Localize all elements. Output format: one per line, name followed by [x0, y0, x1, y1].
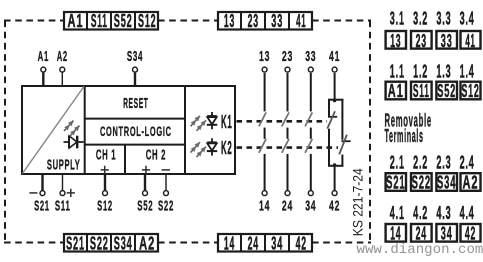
supply section divider [84, 86, 86, 174]
removable terminal block (S21 S22 S34 A2) [386, 173, 481, 194]
caption: Removable Terminals [385, 110, 432, 146]
contact 23-24 (NO, K1+K2 in series) [282, 48, 293, 214]
contact 13-14 (NO, K1+K2 in series) [259, 48, 270, 214]
svg-text:S34: S34 [437, 174, 456, 194]
svg-text:1.3: 1.3 [436, 62, 451, 82]
CH1 plus sign [101, 166, 109, 174]
svg-text:A1: A1 [67, 11, 83, 32]
svg-text:www.diangon.com: www.diangon.com [357, 242, 483, 258]
terminal S12 [97, 174, 113, 214]
NC contact K2 branch [341, 100, 343, 140]
svg-text:14: 14 [224, 234, 235, 254]
pin number labels 3.1-3.4 [390, 9, 475, 29]
terminal S11 [55, 174, 71, 214]
svg-text:3.1: 3.1 [390, 9, 405, 29]
svg-text:S12: S12 [461, 82, 479, 102]
top junction node [333, 99, 336, 102]
svg-text:RESET: RESET [123, 96, 148, 111]
svg-text:2.1: 2.1 [390, 153, 405, 173]
svg-text:24: 24 [248, 234, 259, 254]
channel boxes CH1 / CH2 [85, 145, 185, 174]
svg-text:2.2: 2.2 [413, 153, 428, 173]
svg-text:1.4: 1.4 [460, 62, 475, 82]
svg-text:A1: A1 [38, 47, 49, 65]
svg-text:3.4: 3.4 [460, 9, 475, 29]
removable terminal block (A1 S11 S52 S12) [386, 81, 481, 102]
svg-text:34: 34 [271, 234, 283, 254]
relay coil indicator K1 [191, 111, 233, 132]
svg-text:A2: A2 [462, 173, 478, 194]
svg-text:23: 23 [282, 48, 293, 65]
NC contact K1 branch [328, 100, 330, 116]
contact 41-42 (NC feedback, K1+K2) [327, 48, 350, 214]
terminal S22 [158, 174, 174, 214]
svg-text:S22: S22 [158, 197, 174, 215]
svg-text:4.1: 4.1 [390, 204, 405, 224]
terminal S52 [137, 174, 153, 214]
svg-text:4.3: 4.3 [436, 204, 451, 224]
terminal block TB-bottom-right (14 24 34 42) [218, 234, 312, 254]
svg-text:4.2: 4.2 [413, 204, 428, 224]
terminal block TB-top-right (13 23 33 41) [218, 10, 312, 32]
svg-text:41: 41 [296, 10, 306, 31]
terminal A2 [57, 48, 68, 86]
svg-text:33: 33 [441, 32, 453, 52]
svg-text:S22: S22 [90, 234, 109, 254]
svg-text:13: 13 [224, 12, 235, 32]
svg-text:Terminals: Terminals [385, 125, 424, 146]
CH2 plus sign [142, 166, 150, 174]
svg-text:CH 2: CH 2 [146, 147, 166, 163]
svg-text:S21: S21 [386, 174, 405, 194]
svg-text:41: 41 [465, 30, 475, 51]
svg-text:S52: S52 [114, 12, 133, 32]
supply LED emission arrows [64, 121, 80, 137]
terminal S21 [34, 174, 50, 214]
terminal block TB-bottom-left (S21 S22 S34 A2) [64, 234, 158, 255]
svg-text:3.3: 3.3 [436, 9, 451, 29]
svg-text:23: 23 [416, 31, 427, 51]
terminal S34 [127, 47, 143, 86]
svg-text:13: 13 [390, 31, 401, 51]
svg-text:2.3: 2.3 [436, 153, 451, 173]
terminal A1 [38, 47, 49, 86]
svg-text:2.4: 2.4 [460, 153, 475, 173]
removable terminal block (14 24 34 42) [386, 224, 481, 245]
wire NC box to 42 [334, 166, 336, 191]
svg-text:S21: S21 [66, 234, 85, 254]
svg-text:34: 34 [305, 197, 316, 214]
svg-text:KS 221-7-24: KS 221-7-24 [350, 168, 366, 236]
svg-text:K1: K1 [221, 111, 233, 132]
bottom junction node [333, 163, 336, 166]
svg-text:33: 33 [271, 12, 283, 32]
svg-text:CH 1: CH 1 [96, 147, 116, 163]
svg-text:42: 42 [296, 234, 307, 254]
supply diagonal line [22, 86, 84, 173]
svg-text:13: 13 [259, 48, 270, 65]
terminal block TB-top-left (A1 S11 S52 S12) [64, 11, 158, 32]
svg-text:S21: S21 [34, 198, 50, 214]
svg-text:1.2: 1.2 [413, 62, 428, 82]
svg-text:14: 14 [259, 197, 270, 214]
svg-text:CONTROL-LOGIC: CONTROL-LOGIC [100, 125, 172, 140]
svg-text:K2: K2 [221, 137, 233, 158]
plus polarity at S11 [67, 189, 75, 197]
pin number labels 1.1-1.4 [390, 62, 475, 82]
svg-text:SUPPLY: SUPPLY [47, 157, 81, 173]
svg-text:1.1: 1.1 [390, 62, 405, 82]
svg-text:4.4: 4.4 [460, 204, 475, 224]
pin number labels 2.1-2.4 [390, 153, 475, 173]
svg-text:S11: S11 [91, 12, 108, 33]
wire 41 to NC box [334, 73, 336, 100]
dashed enclosure border [4, 21, 371, 244]
svg-text:23: 23 [248, 12, 259, 32]
minus polarity at S21 [29, 192, 37, 194]
NC box bottom edge [328, 165, 344, 167]
contact 33-34 (NO, K1+K2 in series) [305, 48, 316, 214]
svg-text:3.2: 3.2 [413, 9, 428, 29]
removable terminal block (13 23 33 41) [386, 30, 481, 52]
svg-text:A2: A2 [139, 234, 155, 255]
reset box [85, 86, 185, 174]
svg-text:S12: S12 [97, 198, 113, 214]
supply LED indicator diode [64, 136, 84, 149]
CH2 minus sign [162, 169, 170, 171]
relay coil indicator K2 [191, 137, 233, 158]
svg-text:S22: S22 [412, 174, 431, 194]
NC box top edge [328, 99, 344, 101]
svg-text:S12: S12 [138, 12, 156, 32]
mechanical linkage dashed line K2 [237, 146, 339, 149]
svg-text:41: 41 [329, 48, 340, 65]
mechanical linkage dashed line K1 [237, 120, 328, 123]
svg-text:A1: A1 [388, 81, 404, 102]
svg-text:S34: S34 [127, 47, 143, 64]
svg-text:S11: S11 [55, 197, 71, 214]
svg-text:A2: A2 [57, 48, 68, 64]
svg-text:S52: S52 [437, 82, 456, 102]
pin number labels 4.1-4.4 [390, 204, 475, 224]
svg-text:S52: S52 [137, 197, 153, 215]
relay module main box U1 [22, 86, 235, 174]
svg-text:33: 33 [305, 48, 316, 65]
svg-text:42: 42 [329, 197, 340, 214]
svg-text:S34: S34 [114, 234, 133, 254]
svg-text:24: 24 [282, 197, 293, 214]
svg-text:S11: S11 [413, 82, 430, 103]
